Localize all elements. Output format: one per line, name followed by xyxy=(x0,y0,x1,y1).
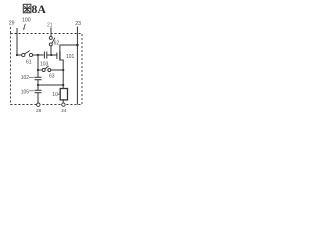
svg-text:102: 102 xyxy=(21,75,30,81)
junction dot rail/drain xyxy=(76,44,79,47)
wire box 104 to node 24 xyxy=(62,100,64,103)
junction dot switch 62 branch xyxy=(50,54,52,56)
transistor 101 source lead xyxy=(60,60,63,70)
junction dot x63 y70 xyxy=(62,69,64,71)
svg-text:24: 24 xyxy=(61,108,67,114)
svg-text:63: 63 xyxy=(49,74,55,80)
junction dot x63 y85 xyxy=(62,84,64,86)
dashed enclosure box 100 xyxy=(11,34,83,105)
wire from switch 63 to x63 rail xyxy=(51,69,63,71)
junction dot y85 xyxy=(37,84,39,86)
figure title 図8A xyxy=(23,4,31,13)
leader tick for 105 xyxy=(29,90,34,92)
wire switch 62 to gate node xyxy=(50,46,52,55)
left border stub above corner xyxy=(10,27,12,34)
junction dot switch 63 branch xyxy=(37,69,39,71)
terminal 29 lead wire xyxy=(17,28,22,55)
svg-text:104: 104 xyxy=(52,92,61,98)
capacitor 102 xyxy=(35,77,42,79)
capacitor 103 xyxy=(44,52,46,59)
terminal 21 lead wire xyxy=(50,28,52,37)
svg-text:100: 100 xyxy=(22,18,31,24)
node 24 terminal circle xyxy=(62,103,65,106)
switch 63 xyxy=(38,66,51,72)
wire y85 to x63 rail xyxy=(38,84,63,86)
vertical wire x63 xyxy=(62,70,64,88)
transistor 101 drain lead xyxy=(60,45,78,52)
switch 61 xyxy=(22,51,33,57)
svg-text:61: 61 xyxy=(26,60,32,66)
junction dot at terminal 29 corner xyxy=(16,54,18,56)
node 28 terminal circle xyxy=(37,103,40,106)
svg-text:101: 101 xyxy=(66,54,75,60)
capacitor 105 xyxy=(35,90,42,92)
svg-text:23: 23 xyxy=(75,21,81,27)
arrow from label 100 to box xyxy=(24,24,26,29)
svg-text:8A: 8A xyxy=(32,4,47,16)
leader tick for 102 xyxy=(29,76,34,78)
svg-text:105: 105 xyxy=(21,89,30,95)
vertical wire x38 lower xyxy=(37,93,39,103)
switch 62 xyxy=(49,36,55,46)
wire cap103 to gate xyxy=(47,54,57,56)
junction dot wire/branch x38 xyxy=(37,54,39,56)
transistor 101 channel bar xyxy=(59,52,61,61)
svg-text:21: 21 xyxy=(47,23,53,29)
svg-text:29: 29 xyxy=(9,21,15,27)
vertical wire x38 upper xyxy=(37,55,39,77)
svg-text:103: 103 xyxy=(40,62,49,68)
svg-text:28: 28 xyxy=(36,108,42,114)
vertical wire x38 middle xyxy=(37,80,39,91)
terminal 23 rail xyxy=(76,27,78,105)
wire from switch 61 to node xyxy=(33,54,44,56)
transistor 101 gate bar xyxy=(56,53,58,60)
load box 104 xyxy=(60,89,67,100)
svg-text:62: 62 xyxy=(54,40,60,46)
